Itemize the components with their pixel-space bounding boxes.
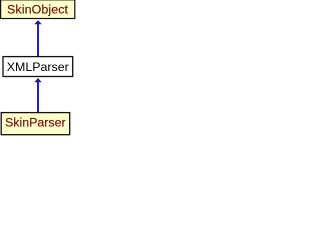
svg-text:XMLParser: XMLParser bbox=[7, 60, 69, 74]
inheritance arrow 1 (XMLParser to SkinObject) bbox=[34, 20, 41, 57]
class box SkinObject bbox=[1, 0, 75, 18]
class box SkinParser bbox=[1, 113, 70, 135]
svg-text:SkinObject: SkinObject bbox=[7, 2, 69, 16]
class box XMLParser bbox=[3, 57, 73, 77]
svg-text:SkinParser: SkinParser bbox=[5, 116, 66, 130]
inheritance arrow 2 (SkinParser to XMLParser) bbox=[34, 78, 41, 113]
